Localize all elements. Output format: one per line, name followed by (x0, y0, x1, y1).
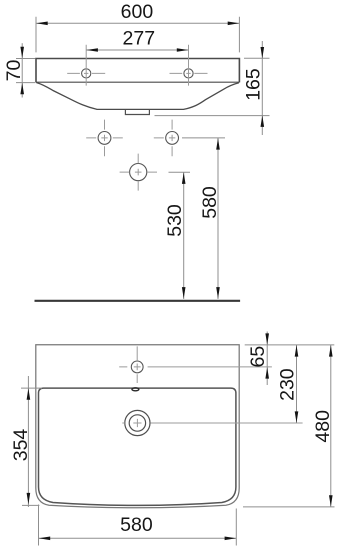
drain outer circle (125, 410, 150, 435)
svg-text:230: 230 (277, 368, 299, 401)
svg-text:70: 70 (3, 60, 25, 82)
tap hole left crosshair (67, 72, 105, 74)
dim 600 line (36, 22, 239, 24)
dim 277 line (86, 49, 188, 51)
svg-text:600: 600 (121, 1, 154, 23)
siphon hole circle (130, 164, 147, 181)
dim 480 line (330, 345, 332, 507)
mounting hole right circle (166, 132, 179, 145)
drain inner circle (129, 415, 145, 431)
dim 65 arrows (outside) (265, 333, 269, 378)
dim 70 arrows (outside) (20, 47, 24, 95)
svg-text:165: 165 (243, 68, 265, 101)
dim 165 arrows (outside) (261, 47, 265, 127)
mounting hole left crosshair (86, 120, 123, 157)
dim 354 arrows (27, 388, 31, 504)
dim 580 mid arrows (216, 138, 220, 299)
overflow slot (132, 388, 139, 391)
dim 165 extension lines (155, 58, 270, 115)
washbasin front-view bowl curve (36, 83, 239, 110)
svg-text:65: 65 (247, 346, 269, 368)
dim 480 arrows (329, 345, 333, 507)
dim 580 mid line (217, 138, 219, 299)
dim 277 extension lines (hole centerlines) (86, 45, 188, 86)
tap hole right circle (184, 69, 193, 78)
svg-text:580: 580 (199, 186, 221, 219)
dim 230 arrows (295, 345, 299, 423)
mounting hole right crosshair (154, 120, 176, 157)
drain crosshair (122, 419, 302, 427)
shared right extension line top (245, 344, 335, 346)
tap hole left circle (82, 69, 91, 78)
svg-text:354: 354 (10, 429, 32, 462)
faucet hole circle (131, 361, 143, 373)
svg-text:277: 277 (123, 28, 156, 50)
dim 600 arrows (36, 22, 239, 26)
plan view outer outline (36, 345, 239, 508)
dim 354 line (27, 376, 29, 507)
dim 480 bottom extension line (243, 506, 335, 508)
tap hole right crosshair (170, 72, 208, 74)
dim 165 line (261, 41, 263, 135)
dim 530 line (183, 172, 185, 299)
siphon hole crosshair (120, 154, 157, 191)
dim 230 line (296, 345, 298, 423)
dim 600 extension lines (36, 17, 239, 53)
svg-text:530: 530 (164, 204, 186, 237)
faucet hole crosshair (119, 346, 272, 383)
washbasin front-view rim bottom edge (36, 81, 239, 83)
plan view bowl outline (39, 388, 236, 505)
washbasin front-view rim outline (36, 59, 239, 83)
drain tab under bowl (125, 110, 149, 115)
floor line (35, 300, 241, 302)
dim 65 line (266, 332, 268, 386)
dim 70 extension lines (16, 59, 35, 83)
dim 580 mid extension line (182, 137, 225, 139)
dim 580 bottom arrows (39, 537, 236, 541)
dim 580 bottom extension lines (39, 505, 237, 546)
dim 530 arrows (182, 172, 186, 298)
dim 580 bottom line (39, 537, 237, 539)
svg-text:480: 480 (312, 410, 334, 443)
dim 70 line (21, 43, 23, 97)
mounting hole left circle (98, 132, 111, 145)
svg-text:580: 580 (120, 514, 153, 536)
dim 354 extension lines (21, 388, 42, 505)
dim 277 arrows (86, 48, 188, 52)
dim 530 extension line (169, 171, 191, 173)
